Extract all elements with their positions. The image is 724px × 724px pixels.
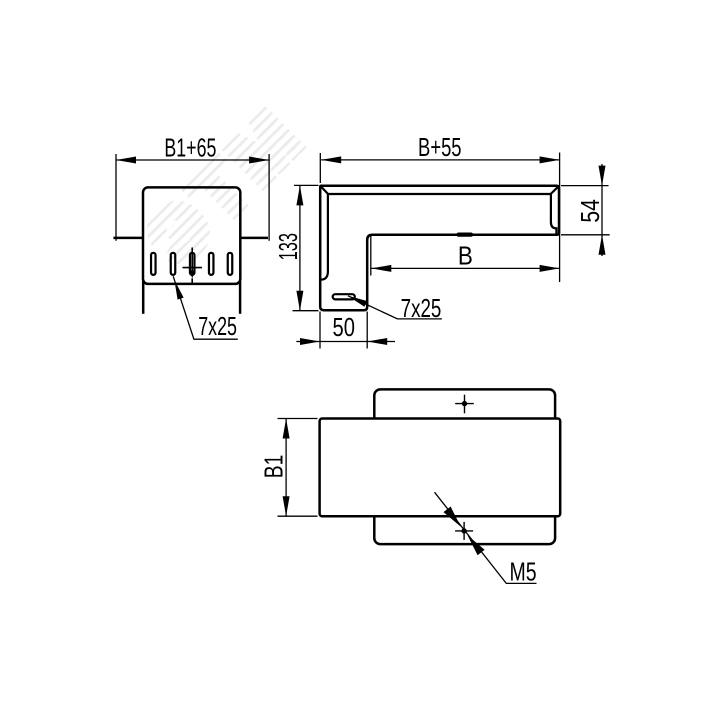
svg-text:7x25: 7x25 <box>198 311 237 341</box>
inner top line <box>328 193 551 195</box>
top hole center mark <box>455 395 474 414</box>
foot slot 7x25 <box>333 294 355 299</box>
slot 3 (middle) <box>190 253 195 275</box>
dimension 133 <box>293 185 319 310</box>
dimension B+55 <box>320 153 559 283</box>
dimension B1+65 <box>116 154 269 241</box>
top-left chamfer <box>321 186 328 193</box>
right flange <box>240 237 268 240</box>
flange plate <box>374 389 555 544</box>
leader M5 <box>435 492 537 586</box>
top-right chamfer <box>551 186 559 194</box>
dimension 54 <box>561 164 610 256</box>
left leg <box>142 281 145 314</box>
svg-text:54: 54 <box>575 199 605 223</box>
slot 2 <box>171 253 176 275</box>
cover body <box>320 419 561 517</box>
right hem line <box>551 194 557 234</box>
weld tick on mid line <box>459 233 472 237</box>
svg-text:50: 50 <box>333 312 355 342</box>
left flange <box>113 237 143 240</box>
bottom hole center mark <box>455 522 473 540</box>
svg-text:M5: M5 <box>509 556 536 586</box>
side view outer contour <box>320 186 559 310</box>
leader 7x25 (front) <box>173 276 238 341</box>
right leg <box>239 281 242 314</box>
dimension B1 <box>278 419 318 517</box>
svg-text:B+55: B+55 <box>418 132 462 162</box>
slot 4 <box>209 253 214 275</box>
dimension B <box>371 236 560 276</box>
leader 7x25 (side) <box>348 293 442 323</box>
slot 5 <box>228 253 233 275</box>
dimension 50 <box>296 312 395 349</box>
front body plate <box>143 187 240 284</box>
svg-text:B: B <box>458 240 473 270</box>
svg-text:133: 133 <box>273 233 303 260</box>
svg-text:B1: B1 <box>258 455 288 479</box>
left hem line <box>321 194 328 280</box>
middle slot center mark <box>183 248 203 285</box>
svg-text:7x25: 7x25 <box>401 293 442 323</box>
slot 1 <box>151 253 156 275</box>
watermark ETM <box>132 91 320 279</box>
